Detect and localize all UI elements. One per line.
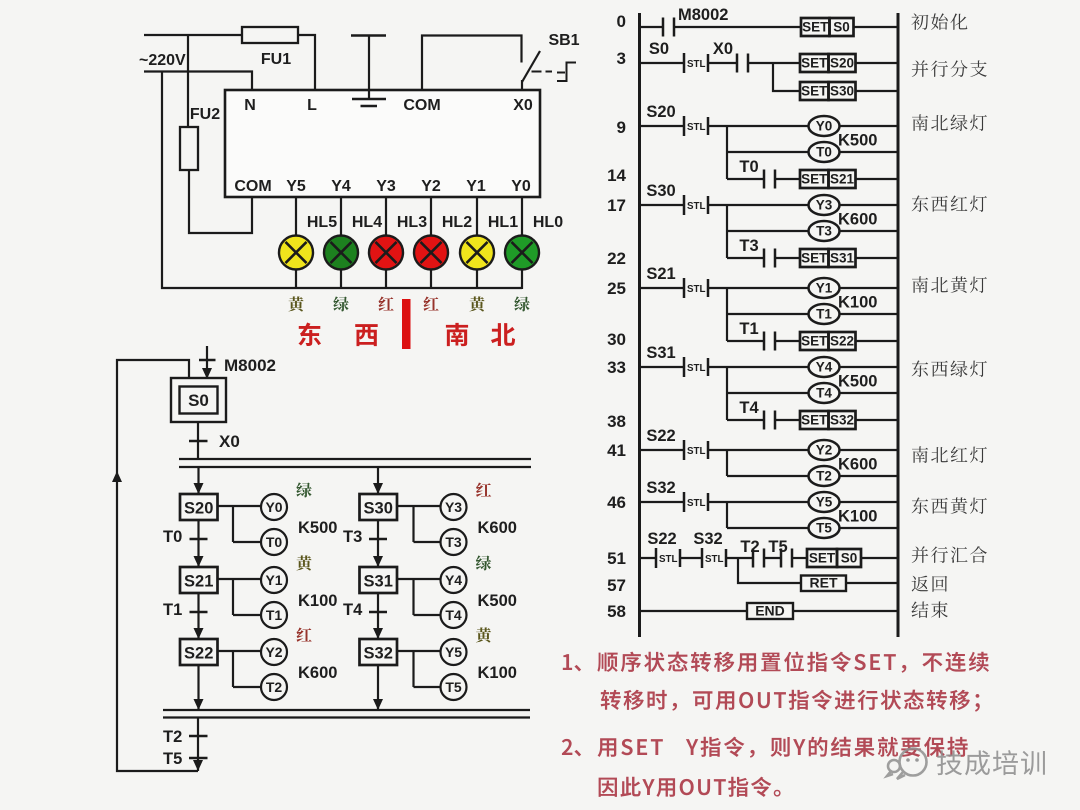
- svg-text:Y0: Y0: [816, 119, 833, 134]
- branch wire to T3 contact: [727, 257, 764, 259]
- svg-text:K500: K500: [838, 132, 877, 150]
- label dong xi (East-West) red: [298, 323, 377, 347]
- svg-text:SET: SET: [802, 20, 829, 35]
- timer coil T0: [261, 529, 287, 555]
- svg-text:3: 3: [617, 49, 626, 68]
- wire tap to FU2: [187, 34, 189, 127]
- svg-text:HL0: HL0: [533, 214, 563, 231]
- svg-text:RET: RET: [810, 575, 838, 591]
- SET S31 instruction box: [800, 249, 856, 267]
- wire S30 to output coils: [397, 506, 441, 542]
- timer coil T3: [809, 221, 840, 241]
- svg-text:T0: T0: [816, 145, 832, 160]
- timer coil T0: [809, 142, 840, 162]
- branch wire down: [726, 367, 728, 420]
- output coil Y3: [441, 494, 467, 520]
- svg-text:Y1: Y1: [816, 281, 833, 296]
- STL contact S31: [684, 357, 708, 377]
- transition T1 between S21 and S22: [197, 593, 199, 639]
- svg-text:STL: STL: [687, 201, 706, 212]
- SET S0 instruction box: [801, 18, 854, 36]
- rung 46 wire to right rail: [840, 501, 899, 503]
- svg-text:Y1: Y1: [466, 178, 486, 195]
- PLC I/O box: [225, 90, 540, 197]
- svg-text:30: 30: [607, 330, 626, 349]
- output coil Y2: [261, 639, 287, 665]
- svg-text:SET: SET: [801, 334, 828, 349]
- wire S22 to output coils: [218, 651, 262, 687]
- SFC return wire loop: [117, 360, 198, 771]
- rung 57 comment: fan-hui (return): [912, 576, 948, 592]
- contact T2 (ladder): [753, 549, 764, 568]
- wire N phase to N terminal: [144, 72, 252, 92]
- svg-text:T3: T3: [739, 237, 758, 255]
- STL contact S30: [684, 195, 708, 215]
- svg-text:25: 25: [607, 279, 626, 298]
- wire L phase to FU1: [144, 34, 242, 36]
- timer coil T1: [261, 602, 287, 628]
- svg-text:Y5: Y5: [286, 178, 306, 195]
- svg-text:S20: S20: [646, 103, 675, 121]
- svg-text:S32: S32: [830, 413, 854, 428]
- rung 41 wire to right rail: [840, 449, 899, 451]
- output coil Y1: [261, 567, 287, 593]
- svg-text:9: 9: [617, 118, 626, 137]
- svg-text:T1: T1: [739, 320, 758, 338]
- svg-text:S20: S20: [184, 500, 213, 518]
- svg-text:L: L: [307, 97, 317, 114]
- timer coil wire to right rail: [840, 151, 899, 153]
- svg-text:T4: T4: [816, 386, 832, 401]
- transition T3 between S30 and S31: [377, 520, 379, 567]
- svg-text:S32: S32: [693, 530, 722, 548]
- svg-text:HL1: HL1: [488, 214, 518, 231]
- state box S22: [180, 639, 218, 665]
- T2 transition tick: [189, 735, 208, 738]
- rung 51 wire segment 2: [680, 557, 702, 559]
- rung 3 wire to right rail: [856, 62, 899, 64]
- note line 4 text: [599, 777, 781, 797]
- branch wire to timer coil T4: [727, 392, 809, 394]
- svg-text:T5: T5: [816, 521, 832, 536]
- svg-text:SET: SET: [801, 251, 828, 266]
- svg-text:SET: SET: [801, 56, 828, 71]
- svg-text:T3: T3: [816, 224, 832, 239]
- lamp common rail: [161, 287, 522, 289]
- lamp HL5: [279, 236, 313, 270]
- M8002 transition tick: [199, 359, 216, 362]
- svg-text:17: 17: [607, 196, 626, 215]
- svg-text:K100: K100: [298, 592, 337, 610]
- svg-text:M8002: M8002: [678, 6, 728, 24]
- svg-text:SB1: SB1: [548, 32, 579, 49]
- wire T0 contact to SET box: [775, 178, 800, 180]
- svg-text:Y2: Y2: [816, 443, 833, 458]
- svg-text:T5: T5: [768, 538, 787, 556]
- wire S32 to output coils: [397, 651, 441, 687]
- timer coil wire to right rail: [840, 527, 899, 529]
- rung 17 wire segment 1: [640, 204, 685, 206]
- rung 41 wire segment 1: [640, 449, 685, 451]
- rung 3 wire segment 3: [748, 62, 800, 64]
- svg-text:S20: S20: [830, 56, 854, 71]
- STL contact S32: [684, 492, 708, 512]
- timer coil wire to right rail: [840, 392, 899, 394]
- contact T0: [764, 170, 775, 189]
- lamp HL0: [505, 236, 539, 270]
- svg-text:Y4: Y4: [816, 360, 833, 375]
- rung 46 wire to coil Y5: [708, 501, 809, 503]
- switch SB1: [522, 51, 552, 91]
- svg-text:T1: T1: [163, 601, 182, 619]
- wire COM input loop to switch: [422, 36, 522, 92]
- rung 0 wire to right rail: [854, 26, 899, 28]
- note line 1 text: [597, 652, 989, 673]
- note line 3 text b: [686, 737, 968, 758]
- svg-text:HL4: HL4: [352, 214, 382, 231]
- svg-text:S31: S31: [830, 251, 855, 266]
- svg-text:STL: STL: [687, 363, 706, 374]
- timer coil T5: [441, 674, 467, 700]
- svg-text:Y5: Y5: [816, 495, 833, 510]
- svg-text:S31: S31: [364, 573, 393, 591]
- svg-text:S0: S0: [833, 20, 850, 35]
- svg-text:T2: T2: [816, 469, 832, 484]
- svg-text:K100: K100: [838, 508, 877, 526]
- rung 33 wire segment 1: [640, 366, 685, 368]
- rung 0 wire: [640, 26, 802, 28]
- svg-text:M8002: M8002: [224, 356, 276, 375]
- state box S32: [360, 639, 398, 665]
- timer coil wire to right rail: [840, 230, 899, 232]
- rung 41 comment: [912, 446, 987, 463]
- contact T4: [764, 411, 775, 430]
- svg-text:Y3: Y3: [816, 198, 833, 213]
- parallel branch wire to SET S30: [773, 63, 800, 91]
- transition T0 between S20 and S21: [197, 520, 199, 567]
- timer coil T2: [809, 466, 840, 486]
- svg-text:T0: T0: [163, 528, 182, 546]
- svg-text:57: 57: [607, 576, 626, 595]
- svg-text:COM: COM: [234, 178, 271, 195]
- wire Y0 to HL0: [521, 196, 523, 289]
- wire SET S22 to right rail: [856, 340, 899, 342]
- svg-text:SET: SET: [809, 551, 836, 566]
- wire FU1 to L terminal: [298, 35, 315, 91]
- svg-text:51: 51: [607, 549, 626, 568]
- branch wire to timer coil T5: [727, 527, 809, 529]
- svg-text:HL3: HL3: [397, 214, 427, 231]
- svg-text:COM: COM: [403, 97, 440, 114]
- rung 51 wire to right rail: [861, 557, 898, 559]
- svg-text:FU2: FU2: [190, 106, 220, 123]
- colour note 黄: [296, 555, 311, 570]
- rung 46 wire segment 1: [640, 501, 685, 503]
- svg-text:STL: STL: [659, 554, 678, 565]
- STL contact S32 (join): [702, 548, 726, 568]
- svg-text:FU1: FU1: [261, 51, 291, 68]
- wire Y5 to HL5: [295, 196, 297, 289]
- rung 33 wire to coil Y4: [708, 366, 809, 368]
- wire Y3 to HL3: [385, 196, 387, 289]
- svg-text:T5: T5: [445, 679, 462, 695]
- STL contact S22 (join): [656, 548, 680, 568]
- wire T4 contact to SET box: [775, 419, 800, 421]
- svg-text:T1: T1: [266, 607, 283, 623]
- svg-text:STL: STL: [687, 59, 706, 70]
- svg-text:Y2: Y2: [421, 178, 441, 195]
- branch wire to timer coil T0: [727, 151, 809, 153]
- lamp HL3: [369, 236, 403, 270]
- svg-text:Y3: Y3: [445, 499, 462, 515]
- rung 33 comment: [912, 360, 987, 377]
- wire Y2 to HL2: [430, 196, 432, 289]
- branch wire to T1 contact: [727, 340, 764, 342]
- coil Y0: [809, 116, 840, 136]
- svg-text:S22: S22: [184, 645, 213, 663]
- svg-text:T1: T1: [816, 307, 832, 322]
- svg-text:~220V: ~220V: [139, 52, 186, 69]
- state box S31: [360, 567, 398, 593]
- svg-text:14: 14: [607, 166, 626, 185]
- lamp HL4: [324, 236, 358, 270]
- timer coil wire to right rail: [840, 313, 899, 315]
- coil Y4: [809, 357, 840, 377]
- contact X0 (ladder): [737, 54, 748, 73]
- rung 9 wire to coil Y0: [708, 125, 809, 127]
- svg-text:41: 41: [607, 441, 626, 460]
- svg-text:T2: T2: [266, 679, 283, 695]
- branch wire to right rail: [856, 90, 899, 92]
- rung 25 wire to coil Y1: [708, 287, 809, 289]
- svg-text:S30: S30: [364, 500, 393, 518]
- rung 17 comment: [912, 195, 987, 211]
- STL contact S20: [684, 116, 708, 136]
- SET S21 instruction box: [800, 170, 856, 188]
- rung 25 wire segment 1: [640, 287, 685, 289]
- svg-text:S0: S0: [188, 391, 209, 410]
- svg-text:K500: K500: [298, 519, 337, 537]
- svg-text:K600: K600: [838, 211, 877, 229]
- branch wire down: [726, 126, 728, 179]
- svg-text:S22: S22: [647, 530, 676, 548]
- svg-text:Y3: Y3: [376, 178, 396, 195]
- lamp colour label lv (green) 2: [514, 296, 529, 311]
- colour note 黄: [476, 627, 491, 642]
- svg-text:K600: K600: [838, 456, 877, 474]
- rung 51 wire segment 4: [764, 557, 781, 559]
- wire S20 to output coils: [218, 506, 262, 542]
- svg-text:SET: SET: [801, 172, 828, 187]
- rung 41 wire to coil Y2: [708, 449, 809, 451]
- initial state S0 double box: [171, 378, 226, 422]
- rung 9 wire segment 1: [640, 125, 685, 127]
- branch wire to T0 contact: [727, 178, 764, 180]
- note line 3 marker: [562, 739, 581, 757]
- switch SB1 manual actuator symbol: [557, 63, 576, 82]
- svg-text:STL: STL: [687, 122, 706, 133]
- svg-text:HL5: HL5: [307, 214, 337, 231]
- svg-text:T2: T2: [163, 728, 182, 746]
- svg-text:Y5: Y5: [445, 644, 462, 660]
- rung 17 wire to right rail: [840, 204, 899, 206]
- branch wire down: [726, 205, 728, 258]
- wire Y1 to HL1: [476, 196, 478, 289]
- RET instruction box: [801, 575, 846, 592]
- svg-text:STL: STL: [687, 446, 706, 457]
- ground symbol: [351, 36, 386, 107]
- lamp colour label lv (green): [333, 296, 348, 311]
- svg-text:S0: S0: [649, 40, 669, 58]
- lamp colour label huang (yellow) 2: [469, 296, 484, 311]
- transition T4 between S31 and S32: [377, 593, 379, 639]
- svg-text:S21: S21: [646, 265, 675, 283]
- SET S20 instruction box: [800, 54, 856, 72]
- T5 transition tick: [189, 757, 208, 760]
- bottom arrowhead to return wire: [193, 760, 203, 771]
- wire S22 down to join line: [197, 665, 199, 710]
- rung 0 comment: chu-shi-hua (initialise): [911, 13, 967, 30]
- svg-text:S32: S32: [646, 479, 675, 497]
- rung 51 wire segment 5: [792, 557, 807, 559]
- svg-text:SET: SET: [801, 413, 828, 428]
- watermark text ji-cheng-pei-xun: [937, 750, 1045, 775]
- svg-text:T2: T2: [740, 538, 759, 556]
- wire Y4 to HL4: [340, 196, 342, 289]
- lamp HL1: [460, 236, 494, 270]
- svg-text:58: 58: [607, 602, 626, 621]
- state box S30: [360, 494, 398, 520]
- coil Y3: [809, 195, 840, 215]
- colour note 绿: [296, 482, 311, 497]
- svg-text:STL: STL: [705, 554, 724, 565]
- return wire up arrowhead: [112, 471, 122, 482]
- svg-text:S31: S31: [646, 344, 675, 362]
- SET S32 instruction box: [800, 411, 856, 429]
- STL contact S0: [684, 53, 708, 73]
- wire join line down with T2 T5 transitions: [197, 718, 199, 772]
- svg-text:K100: K100: [478, 664, 517, 682]
- svg-text:STL: STL: [687, 498, 706, 509]
- lamp colour label hong (red) 2: [424, 297, 439, 311]
- rung 9 comment: [912, 114, 987, 131]
- rung 3 wire segment 2: [708, 62, 737, 64]
- wire SET S32 to right rail: [856, 419, 899, 421]
- svg-text:S30: S30: [830, 84, 854, 99]
- lamp HL2: [414, 236, 448, 270]
- rung 51 comment: bing-xing-hui-he (parallel join): [912, 546, 987, 563]
- rung 51 wire segment 1: [640, 557, 657, 559]
- rung 33 wire to right rail: [840, 366, 899, 368]
- branch wire down: [726, 502, 728, 528]
- timer coil T3: [441, 529, 467, 555]
- timer coil T5: [809, 518, 840, 538]
- svg-text:33: 33: [607, 358, 626, 377]
- contact T3: [764, 249, 775, 268]
- svg-text:K600: K600: [298, 664, 337, 682]
- output coil Y5: [441, 639, 467, 665]
- parallel branch double line top: [179, 458, 531, 460]
- svg-text:Y0: Y0: [511, 178, 531, 195]
- svg-text:N: N: [244, 97, 256, 114]
- output coil Y0: [261, 494, 287, 520]
- svg-text:T0: T0: [266, 534, 283, 550]
- timer coil wire to right rail: [840, 475, 899, 477]
- svg-text:END: END: [755, 603, 785, 619]
- svg-text:T4: T4: [445, 607, 462, 623]
- STL contact S22: [684, 440, 708, 460]
- colour note 绿: [476, 555, 491, 570]
- svg-text:38: 38: [607, 412, 626, 431]
- svg-text:K100: K100: [838, 294, 877, 312]
- red divider bar: [402, 299, 411, 349]
- svg-text:Y0: Y0: [265, 499, 282, 515]
- note line 3 text a: [598, 738, 663, 757]
- svg-text:T5: T5: [163, 750, 182, 768]
- output coil Y4: [441, 567, 467, 593]
- timer coil T2: [261, 674, 287, 700]
- wire into state S20 with arrowhead: [197, 467, 199, 494]
- svg-text:S21: S21: [830, 172, 855, 187]
- timer coil T4: [441, 602, 467, 628]
- coil Y1: [809, 278, 840, 298]
- svg-text:Y2: Y2: [265, 644, 282, 660]
- fuse FU1: [242, 27, 298, 43]
- svg-text:22: 22: [607, 249, 626, 268]
- svg-text:HL2: HL2: [442, 214, 472, 231]
- timer coil T4: [809, 383, 840, 403]
- note line 1 marker: [563, 654, 581, 671]
- state box S20: [180, 494, 218, 520]
- svg-text:STL: STL: [687, 284, 706, 295]
- contact T5 (ladder): [781, 549, 792, 568]
- wire T1 contact to SET box: [775, 340, 800, 342]
- svg-text:T3: T3: [445, 534, 462, 550]
- wire SET S21 to right rail: [856, 178, 899, 180]
- lamp colour label huang (yellow): [288, 296, 303, 311]
- rung 25 comment: [912, 276, 987, 293]
- wire S21 to output coils: [218, 579, 262, 615]
- timer coil T1: [809, 304, 840, 324]
- svg-text:46: 46: [607, 493, 626, 512]
- svg-text:S0: S0: [841, 551, 858, 566]
- branch wire to RET: [738, 558, 801, 583]
- wire T3 contact to SET box: [775, 257, 800, 259]
- rung 17 wire to coil Y3: [708, 204, 809, 206]
- SET S30 instruction box: [800, 82, 856, 100]
- coil Y2: [809, 440, 840, 460]
- branch wire to timer coil T2: [727, 475, 809, 477]
- svg-text:Y4: Y4: [331, 178, 351, 195]
- svg-text:K600: K600: [478, 519, 517, 537]
- branch wire down: [726, 450, 728, 476]
- svg-text:T3: T3: [343, 528, 362, 546]
- svg-text:S22: S22: [646, 427, 675, 445]
- coil Y5: [809, 492, 840, 512]
- svg-text:Y4: Y4: [445, 572, 462, 588]
- wire into state S30 with arrowhead: [377, 467, 379, 494]
- state box S21: [180, 567, 218, 593]
- svg-text:T4: T4: [739, 399, 759, 417]
- rung 58 wire: [640, 610, 748, 612]
- wire N tap to lamp common rail: [161, 71, 163, 290]
- svg-text:K500: K500: [838, 373, 877, 391]
- wire S31 to output coils: [397, 579, 441, 615]
- wire RET to right rail: [846, 582, 898, 584]
- watermark logo bubble: [887, 749, 927, 780]
- colour note 红: [297, 628, 312, 642]
- svg-text:0: 0: [617, 12, 626, 31]
